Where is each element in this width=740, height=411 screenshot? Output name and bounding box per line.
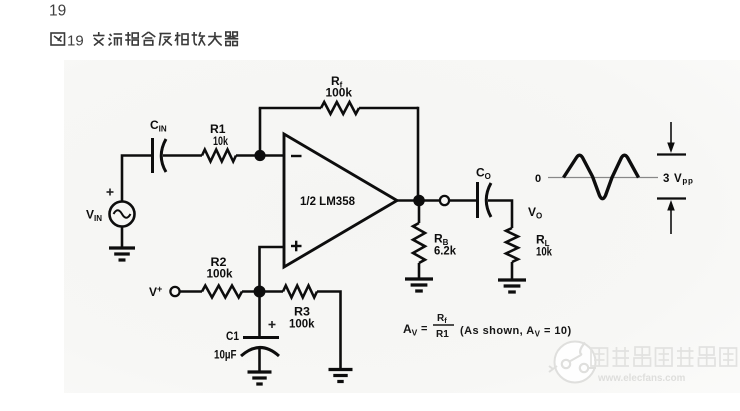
wire feedback top right segment	[359, 107, 418, 110]
svg-text:19: 19	[67, 33, 84, 50]
node B output junction	[413, 195, 425, 207]
svg-text:C1: C1	[226, 329, 239, 343]
fraction bar	[433, 324, 454, 326]
wire R1 to inverting node	[236, 154, 284, 157]
svg-text:100k: 100k	[207, 267, 233, 281]
output sine waveform	[564, 155, 639, 199]
wire C1 to ground	[258, 347, 261, 371]
title char 合	[142, 32, 156, 45]
source VIN	[110, 202, 135, 227]
resistor Rf	[321, 102, 359, 114]
title char 耦	[125, 32, 138, 46]
wire VIN to CIN	[122, 156, 152, 202]
op-amp U1 1/2 LM358	[284, 134, 397, 267]
resistor R2	[202, 286, 242, 298]
title char 放	[192, 32, 206, 46]
open terminal at output	[440, 196, 449, 205]
terminal V+	[170, 287, 179, 296]
wire feedback right vertical to output	[417, 107, 420, 200]
title char 交	[93, 32, 105, 46]
title char 图	[51, 33, 65, 45]
svg-text:1/2 LM358: 1/2 LM358	[300, 196, 356, 208]
svg-text:100k: 100k	[289, 317, 315, 331]
plus sign at VIN	[107, 189, 114, 196]
svg-text:0: 0	[535, 173, 541, 185]
minus input symbol	[291, 155, 302, 157]
ground below C1	[248, 372, 272, 384]
wire op-amp output	[396, 199, 440, 202]
wire terminal to CO	[449, 199, 477, 202]
plus sign at C1	[269, 321, 276, 328]
capacitor CIN	[153, 138, 167, 173]
svg-text:=: =	[421, 323, 427, 335]
output waveform axis	[548, 177, 658, 179]
wire VIN to ground	[121, 227, 124, 248]
gain formula AV = Rf/R1	[403, 313, 572, 340]
watermark chinese characters	[591, 347, 737, 366]
wire CIN to R1	[163, 154, 202, 157]
wire feedback left vertical	[259, 108, 262, 156]
resistor RL	[506, 228, 518, 262]
wire noninverting input	[260, 247, 285, 292]
wire V+ to R2	[180, 290, 203, 293]
wire R2 to node C	[242, 290, 260, 293]
svg-text:6.2k: 6.2k	[434, 244, 456, 258]
wire CO to RL	[488, 201, 512, 229]
svg-text:100k: 100k	[326, 86, 353, 100]
svg-text:10k: 10k	[213, 134, 228, 148]
wire R3 to ground	[317, 292, 341, 369]
svg-text:www.elecfans.com: www.elecfans.com	[597, 373, 686, 384]
title char 大	[208, 32, 222, 46]
wire output node to RB	[418, 201, 421, 224]
title char 器	[225, 32, 239, 46]
ground below RB	[405, 279, 433, 291]
resistor R3	[283, 286, 317, 298]
resistor RB	[413, 223, 425, 263]
upper measurement arrow	[657, 122, 686, 155]
watermark logo circle	[549, 342, 596, 383]
title char 反	[159, 34, 172, 46]
node C plus-input bias junction	[254, 286, 266, 298]
svg-text:10µF: 10µF	[214, 348, 237, 362]
resistor R1	[202, 150, 236, 162]
capacitor C1	[241, 338, 279, 357]
ground below R3	[329, 370, 353, 382]
title char 流	[109, 34, 123, 46]
svg-text:(As shown, AV = 10): (As shown, AV = 10)	[460, 325, 572, 339]
svg-text:R1: R1	[436, 329, 449, 340]
title char 相	[175, 32, 188, 46]
wire feedback top left segment	[259, 107, 321, 110]
svg-text:10k: 10k	[536, 245, 552, 259]
ground below VIN	[109, 248, 135, 260]
wire RL to ground	[511, 262, 514, 279]
lower measurement arrow	[657, 199, 686, 235]
ground below RL	[498, 280, 526, 292]
svg-text:19: 19	[49, 3, 66, 20]
capacitor CO	[478, 182, 492, 218]
wire node C to C1	[258, 292, 261, 337]
plus input symbol	[291, 241, 302, 252]
node A inverting input junction	[254, 150, 265, 161]
wire RB to ground	[418, 263, 421, 278]
